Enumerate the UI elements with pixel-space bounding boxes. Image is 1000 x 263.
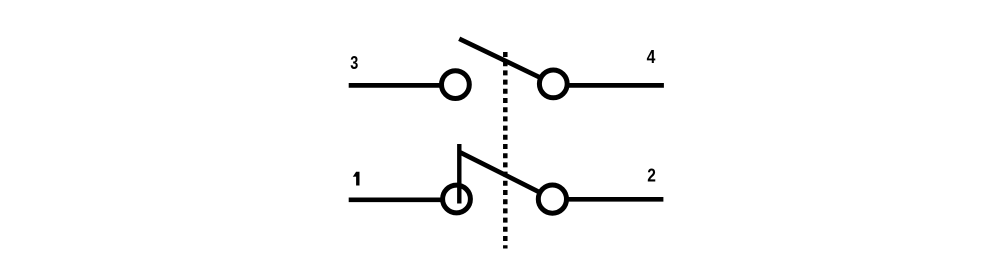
svg-text:2: 2 (647, 165, 656, 186)
svg-text:4: 4 (647, 46, 656, 68)
svg-text:3: 3 (350, 52, 358, 73)
